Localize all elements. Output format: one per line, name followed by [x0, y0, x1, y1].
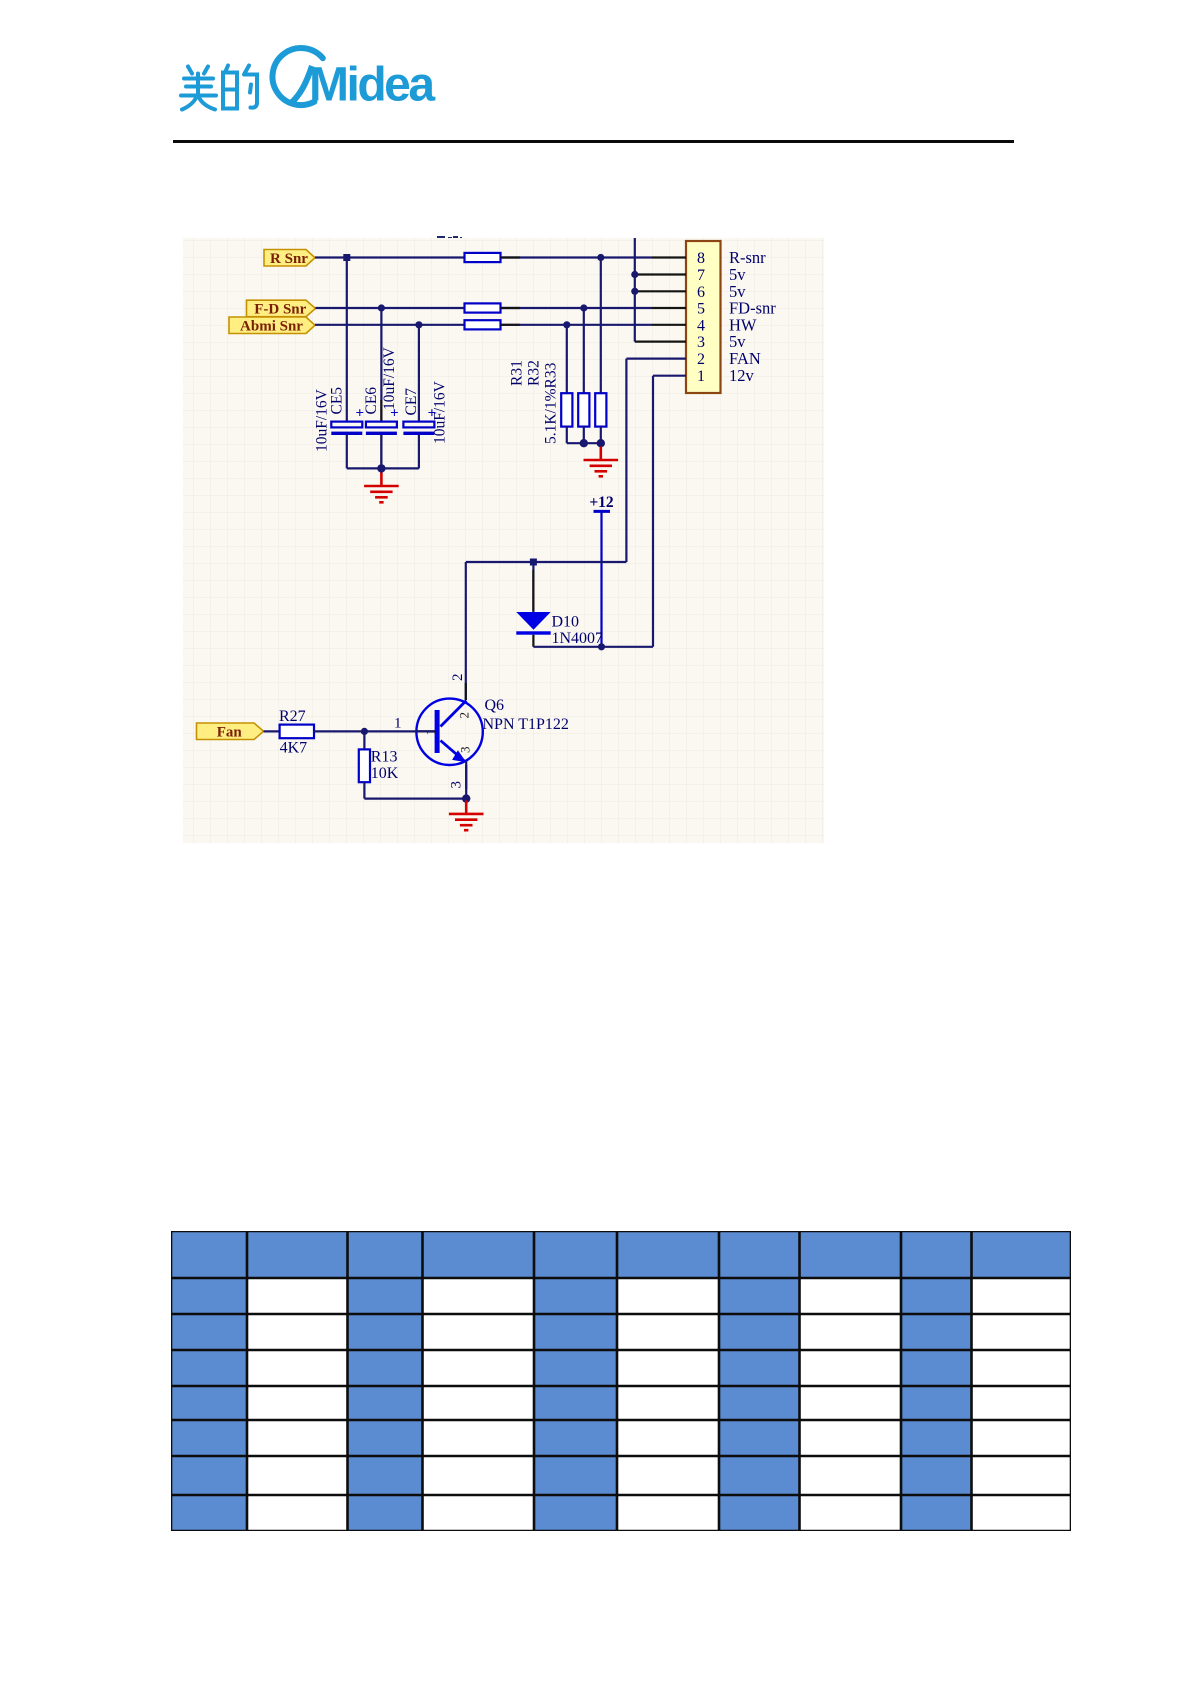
wire R31 drop: [566, 325, 568, 393]
wire diode anode drop: [532, 562, 534, 612]
svg-text:1: 1: [394, 716, 402, 732]
svg-text:Fan: Fan: [217, 724, 243, 740]
junction 5v bus pin 7: [631, 271, 638, 278]
svg-text:6: 6: [697, 284, 705, 301]
svg-text:F-D Snr: F-D Snr: [254, 302, 306, 318]
pin 7 wire: [635, 273, 686, 275]
wire 12v vertical: [652, 376, 654, 647]
junction Abmi / R31: [563, 321, 570, 328]
wire collector vertical: [465, 562, 467, 700]
table blue column 3: [348, 1278, 423, 1531]
svg-text:R13: R13: [371, 749, 398, 766]
resistor pin stub black Abmi row: [501, 324, 521, 326]
svg-text:1: 1: [697, 368, 705, 385]
wire R13 bottom: [363, 782, 365, 798]
schematic canvas: [183, 238, 824, 843]
wire R31 bottom: [566, 427, 568, 444]
wire FD-snr net horizontal: [315, 307, 652, 309]
net label F-D Snr: [247, 300, 316, 317]
svg-text:7: 7: [697, 267, 705, 284]
junction base / R13: [361, 728, 368, 735]
svg-text:CE7: CE7: [403, 388, 420, 416]
svg-text:2: 2: [450, 674, 466, 682]
pin segment CE6 top black: [380, 400, 382, 422]
wire diode cathode drop: [532, 635, 534, 647]
power bar +12: [594, 510, 611, 513]
junction R-snr / R33: [597, 254, 604, 261]
net label R Snr: [264, 250, 315, 267]
svg-text:1N4007: 1N4007: [552, 630, 604, 647]
transistor Q6 emitter arrow: [452, 750, 466, 762]
resistor R13 body: [359, 749, 370, 782]
svg-text:R27: R27: [279, 708, 306, 725]
table blue column 1: [171, 1278, 247, 1531]
resistor R31 body: [561, 393, 572, 426]
pin segment diode anode black: [532, 570, 534, 611]
char Mei: [181, 67, 216, 110]
char De: [223, 66, 257, 109]
wire CE7 bottom: [418, 435, 420, 469]
header rule: [173, 140, 1014, 143]
svg-text:12v: 12v: [729, 366, 755, 385]
wire +12 stub: [600, 511, 602, 646]
Midea logo: [170, 38, 470, 123]
pin 1 12v wire horizontal: [653, 375, 686, 377]
svg-text:5.1K/1%R33: 5.1K/1%R33: [543, 362, 560, 444]
wire cap bus to ground stub: [380, 468, 382, 474]
junction R32 bus: [580, 439, 588, 447]
wire R-snr net horizontal: [315, 256, 652, 258]
resistor pin stub black R-snr row: [501, 256, 521, 258]
svg-text:3: 3: [697, 334, 705, 351]
pin 2 FAN wire horizontal: [626, 358, 686, 360]
junction emitter ground: [462, 794, 470, 802]
svg-text:10uF/16V: 10uF/16V: [432, 380, 449, 444]
resistor R33 body: [595, 393, 606, 426]
resistor pin stub black FD row: [501, 307, 521, 309]
svg-text:Abmi Snr: Abmi Snr: [240, 318, 303, 334]
svg-text:R Snr: R Snr: [270, 251, 308, 267]
capacitor CE5: [331, 406, 364, 436]
wire Abmi-snr net horizontal: [315, 324, 652, 326]
wire resistor ground bus: [567, 442, 601, 444]
wire FAN vertical: [625, 359, 627, 562]
wire CE5 bottom: [346, 435, 348, 469]
junction R-snr / CE5: [343, 254, 350, 261]
wire emitter ground horizontal: [364, 797, 466, 799]
wire R32 bottom: [583, 427, 585, 444]
capacitor CE6: [366, 406, 399, 436]
wire R32 drop: [583, 308, 585, 393]
junction R33 bus: [597, 439, 605, 447]
svg-text:3: 3: [449, 781, 465, 789]
junction cap bus: [377, 464, 385, 472]
table grid lines: [171, 1231, 1071, 1531]
wire Fan to R27: [264, 730, 280, 732]
table blue column 5: [534, 1278, 617, 1531]
table background: [171, 1231, 1071, 1531]
resistor R30 body on R-snr line: [465, 253, 501, 262]
junction Abmi / CE7: [415, 321, 422, 328]
svg-text:4K7: 4K7: [280, 740, 308, 757]
net label Fan: [197, 723, 264, 740]
junction FD-snr / R32: [580, 304, 587, 311]
pin 5 stub: [652, 307, 686, 309]
transistor Q6 collector stroke: [441, 701, 467, 727]
data table: [171, 1231, 1071, 1531]
net label Abmi Snr: [229, 317, 315, 334]
svg-text:2: 2: [697, 351, 705, 368]
resistor R32 body: [578, 393, 589, 426]
svg-text:D10: D10: [552, 614, 580, 631]
resistor R27 body: [280, 725, 314, 739]
ground symbol below capacitors: [364, 473, 399, 503]
ground symbol below R33: [584, 447, 619, 477]
wire R13 top: [363, 731, 365, 749]
transistor Q6 emitter stroke: [441, 741, 465, 762]
svg-text:3: 3: [457, 747, 472, 754]
M swoosh: [291, 66, 312, 103]
pin 3 wire: [635, 341, 686, 343]
svg-text:10uF/16V: 10uF/16V: [381, 346, 398, 410]
wire collector node horizontal: [466, 561, 627, 563]
wire 5v vertical bus: [634, 238, 636, 342]
svg-text:Q6: Q6: [485, 697, 505, 714]
junction diode top: [530, 559, 537, 566]
pin segment CE6 bottom black: [380, 435, 382, 466]
wire CE7 drop: [418, 325, 420, 422]
svg-text:2: 2: [457, 712, 472, 719]
table header row blue: [171, 1231, 1071, 1278]
svg-text:NPN T1P122: NPN T1P122: [483, 716, 569, 733]
svg-text:4: 4: [697, 317, 705, 334]
svg-text:R31: R31: [509, 360, 526, 386]
svg-text:R32: R32: [526, 360, 543, 386]
svg-text:5: 5: [697, 301, 705, 318]
wire emitter vertical: [465, 761, 467, 798]
pin segment emitter black: [465, 765, 467, 789]
clipped text at canvas top: [437, 236, 445, 239]
resistor body on Abmi line: [465, 320, 501, 329]
circle: [272, 48, 322, 105]
pin segment base black: [417, 730, 435, 732]
resistor body on FD-snr line: [465, 303, 501, 312]
svg-text:+12: +12: [589, 494, 614, 511]
svg-text:CE5: CE5: [329, 387, 346, 415]
transistor Q6 circle: [416, 699, 482, 765]
table blue column 7: [719, 1278, 800, 1531]
pin 6 wire: [635, 290, 686, 292]
ground symbol below Q6: [449, 800, 484, 830]
diode D10: [516, 612, 550, 630]
pin 4 stub: [652, 324, 686, 326]
wire CE5 drop: [346, 258, 348, 422]
wire 12v net horizontal: [533, 646, 653, 648]
wire CE6 bottom: [380, 435, 382, 469]
svg-text:10K: 10K: [371, 765, 399, 782]
wire CE6 drop: [380, 308, 382, 422]
wire cap ground bus: [347, 467, 419, 469]
svg-text:8: 8: [697, 250, 705, 267]
junction 5v bus pin 6: [631, 288, 638, 295]
wire R33 drop: [600, 258, 602, 394]
pin segment collector black: [465, 683, 467, 700]
connector J1 body: [686, 241, 721, 393]
transistor Q6 base bar: [435, 710, 440, 753]
junction FD-snr / CE6: [378, 304, 385, 311]
svg-text:CE6: CE6: [363, 387, 380, 415]
junction +12 / 12v net: [598, 643, 605, 650]
table blue column 9: [901, 1278, 972, 1531]
pin stub pin 8: [652, 256, 686, 258]
capacitor CE7: [403, 406, 436, 436]
wire R27 to base: [314, 730, 435, 732]
svg-text:Midea: Midea: [309, 59, 435, 112]
wire R33 bottom: [600, 427, 602, 444]
